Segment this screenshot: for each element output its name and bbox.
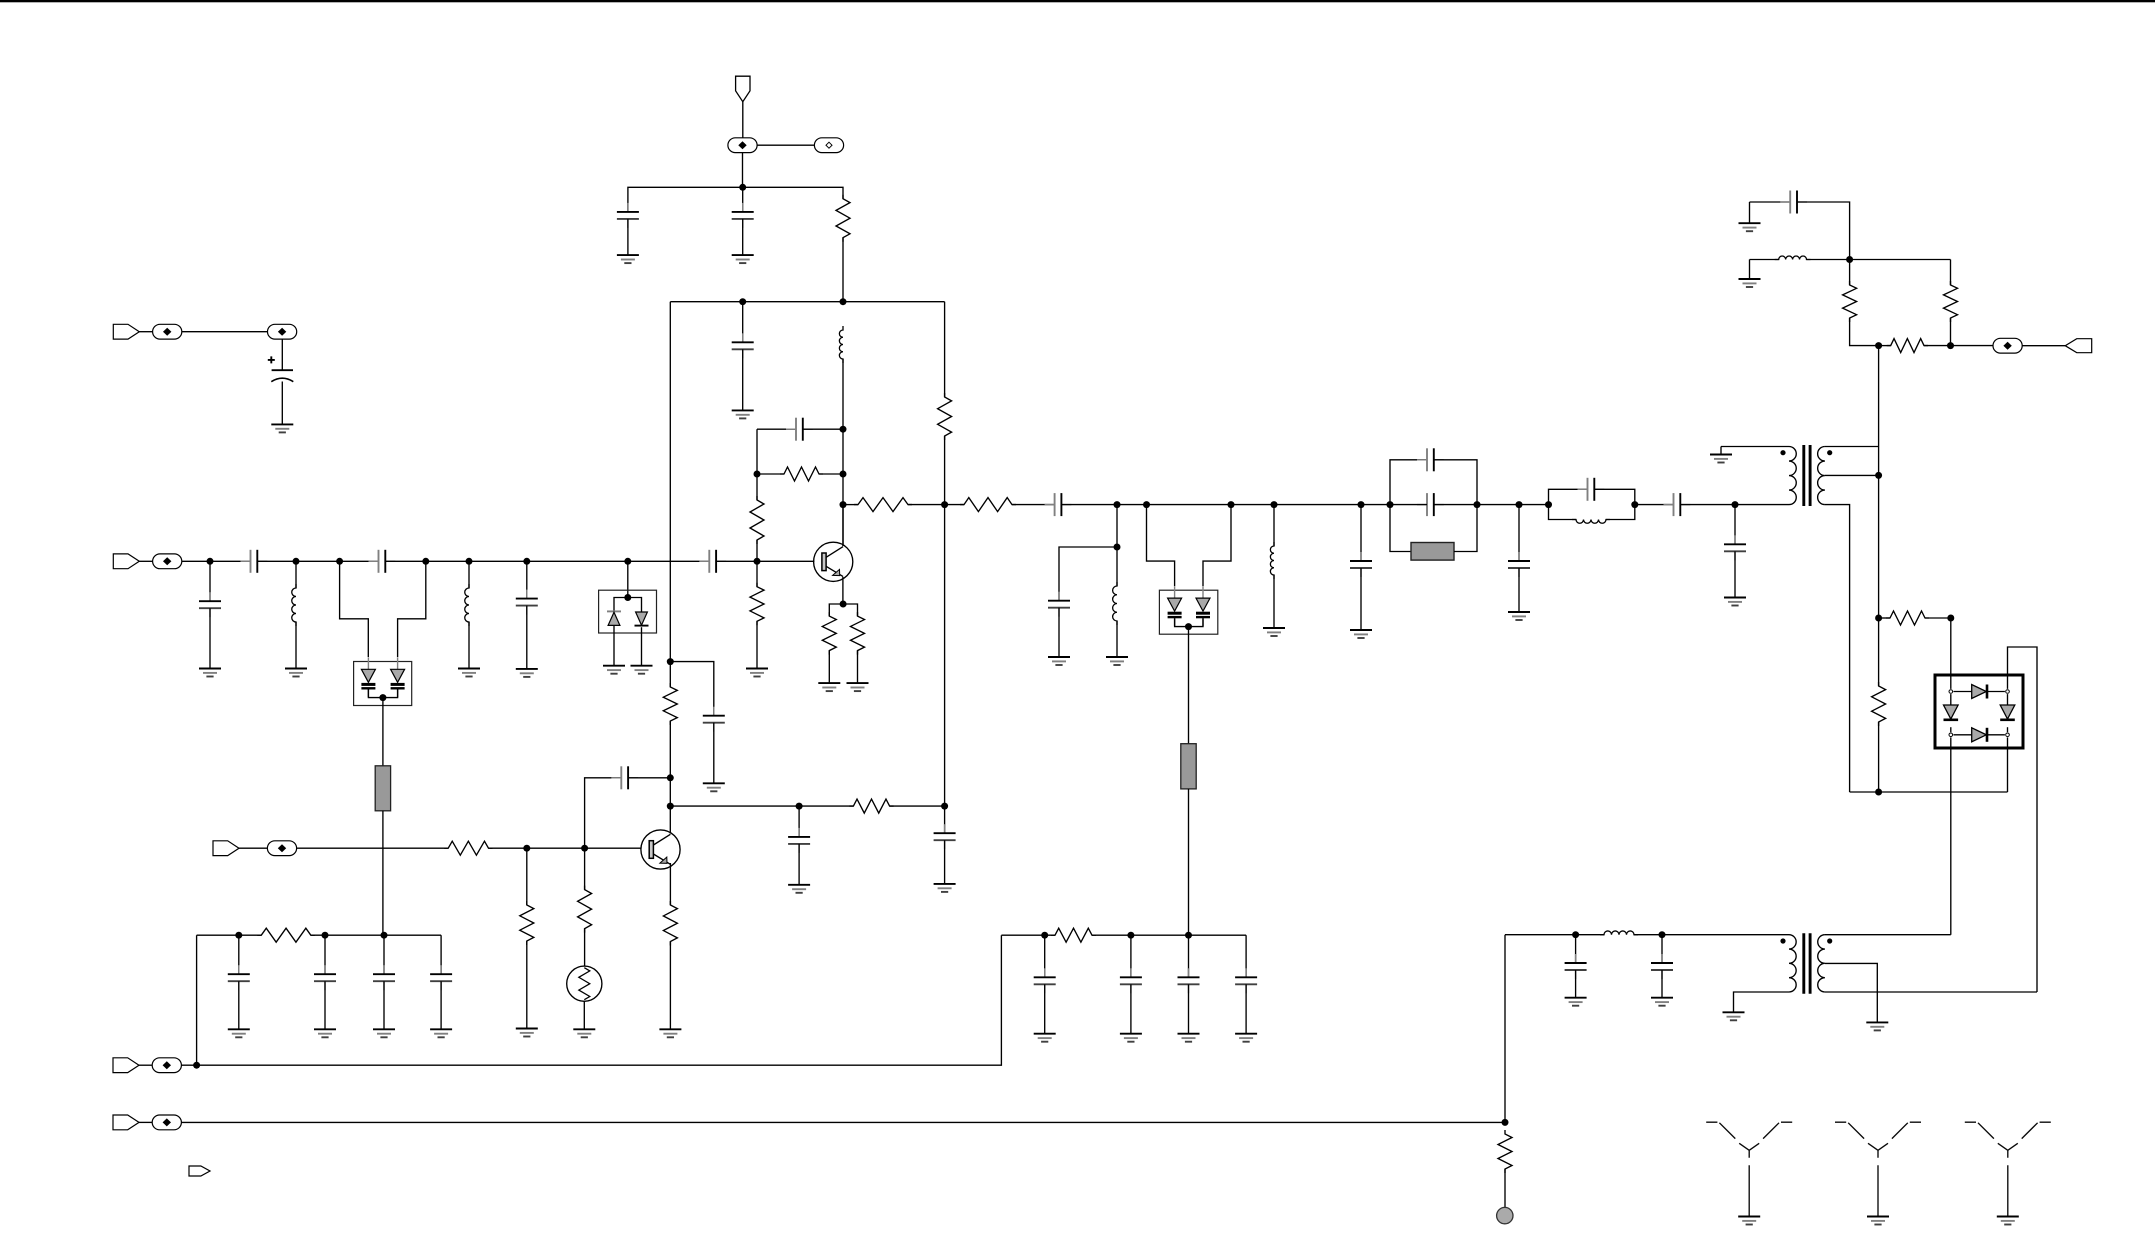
- wire: [1058, 608, 1060, 657]
- wire: [383, 981, 385, 1029]
- diode D6 (bridge right): [2000, 705, 2015, 720]
- junction L4/C12: [1114, 544, 1121, 551]
- wire T1 primary top lead: [1721, 446, 1789, 448]
- varactor module box U3: [1159, 590, 1217, 634]
- wire R8 to R9: [908, 504, 964, 506]
- resistor R4: [750, 496, 764, 544]
- junction LC block right: [1631, 501, 1638, 508]
- wire LPF feed riser: [1504, 935, 1506, 1123]
- junction base node: [754, 558, 761, 565]
- wire: [1116, 621, 1118, 657]
- ground C25: [788, 885, 810, 893]
- wire L7 node to R11 top: [1807, 259, 1951, 261]
- varactor VD1: [361, 657, 375, 697]
- ground C23: [1651, 998, 1673, 1006]
- wire emitter branches: [829, 604, 857, 616]
- wire: [526, 606, 528, 669]
- wire LC top-right: [1594, 489, 1635, 504]
- capacitor C12: [1048, 592, 1070, 617]
- wire C16 left: [1390, 504, 1427, 506]
- ground C6: [199, 669, 221, 677]
- wire Q1C to R8: [843, 504, 858, 506]
- capacitor C24 (feedback): [611, 766, 638, 789]
- capacitor C34: [1235, 968, 1257, 993]
- wire to C22: [1575, 935, 1577, 963]
- wire to C13: [670, 662, 714, 716]
- wire J7 to R16: [297, 847, 449, 849]
- capacitor C10 (feedback): [786, 418, 813, 441]
- bridge pin 1: [1949, 690, 1953, 694]
- diode D4 (bridge bottom): [1972, 728, 1987, 742]
- wire: [1360, 568, 1362, 630]
- varactor VD2: [391, 657, 405, 697]
- wire: [756, 540, 758, 561]
- resistor R2: [938, 393, 952, 440]
- capacitor C33: [1178, 968, 1200, 993]
- wire J5 to C5: [182, 560, 251, 562]
- wire R11 bottom: [1950, 318, 1952, 346]
- wire VD3-VD4 join: [1175, 618, 1203, 626]
- wire control net 2: [181, 1121, 1505, 1123]
- resistor R3 (feedback): [780, 467, 823, 481]
- connector J5: [153, 554, 182, 569]
- wire to C20: [1734, 505, 1736, 545]
- resistor R9: [960, 498, 1016, 512]
- top border bar: [0, 0, 2155, 2]
- ground T2 primary: [1723, 1012, 1745, 1020]
- inductor L8: [1600, 931, 1638, 935]
- junction C28 node: [322, 932, 329, 939]
- wire limiter branches: [614, 598, 642, 613]
- wire to C28: [324, 935, 326, 974]
- wire T1 sec tap lead: [1825, 474, 1879, 476]
- junction varactor left tap: [336, 558, 343, 565]
- junction R13 left: [1875, 615, 1882, 622]
- wire LC to C19: [1635, 504, 1674, 506]
- wire R22 to TP1: [1504, 1169, 1506, 1207]
- wire: [1749, 202, 1751, 223]
- wire Q1 collector up: [842, 505, 844, 546]
- wire: [138, 1064, 152, 1066]
- wire R1 to rail y=302: [842, 238, 844, 302]
- junction L7/R10: [1846, 256, 1853, 263]
- capacitor C7 (series): [369, 550, 396, 573]
- wire R10 bottom: [1850, 318, 1879, 346]
- wire to VD2: [398, 561, 426, 657]
- varactor module box U1: [354, 662, 412, 706]
- resistor RN3 (film): [1411, 543, 1454, 561]
- connector flag FL8: [189, 1166, 210, 1176]
- phase dot T1 primary: [1780, 450, 1785, 455]
- ground L3: [458, 669, 480, 677]
- wire pin4 to rail: [2007, 737, 2009, 792]
- wire RN1 to filter row: [382, 811, 384, 935]
- wire: [1044, 984, 1046, 1033]
- wire R14 to rail: [1878, 722, 1880, 792]
- wire RC block bottom-right: [1454, 505, 1477, 552]
- junction varactor join: [379, 694, 386, 701]
- wire C8 to Q1 base: [716, 560, 814, 562]
- wire: [526, 941, 528, 1029]
- wire: [756, 561, 758, 586]
- transformer T1 primary winding: [1789, 447, 1796, 505]
- wire: [440, 981, 442, 1029]
- wire LPF row B: [1634, 934, 1789, 936]
- wire C5 to C7: [257, 560, 378, 562]
- wire: [584, 848, 586, 889]
- ground C26: [934, 884, 956, 892]
- junction RN1/C29 node: [381, 932, 388, 939]
- junction C9 tap: [523, 558, 530, 565]
- phase dot T1 secondary: [1827, 450, 1832, 455]
- resistor R14: [1872, 682, 1886, 726]
- capacitor C29: [373, 965, 395, 990]
- wire left filter row B: [311, 934, 441, 936]
- wire L1 to Q1 collector: [842, 359, 844, 546]
- wire: [1575, 970, 1577, 998]
- connector J4: [268, 324, 297, 339]
- ground C34: [1235, 1034, 1257, 1042]
- capacitor C17: [1508, 552, 1530, 577]
- capacitor C15: [1417, 448, 1444, 471]
- ground T2 tap: [1866, 1022, 1888, 1030]
- varactor VD3: [1168, 586, 1182, 626]
- wire: [295, 622, 297, 669]
- connector flag FL4 (RF out): [2065, 339, 2092, 353]
- junction C22 node: [1572, 931, 1579, 938]
- wire control net 1: [181, 935, 1001, 1065]
- wire to C25: [798, 806, 800, 837]
- capacitor C21: [1780, 191, 1807, 214]
- wire: [209, 608, 211, 668]
- resistor R20: [257, 928, 315, 942]
- inductor L1: [839, 326, 843, 363]
- capacitor C8 (series): [699, 550, 726, 573]
- wire RC block bottom-left: [1390, 505, 1411, 552]
- capacitor C9: [516, 590, 538, 615]
- ground L4: [1106, 657, 1128, 665]
- connector flag FL3 (RF in): [113, 554, 139, 569]
- ground (antenna): [1997, 1217, 2019, 1225]
- ground L5: [1263, 628, 1285, 636]
- connector flag FL2 (supply): [113, 324, 139, 339]
- connector flag FL7: [113, 1115, 139, 1130]
- limiter diode box U2: [599, 590, 657, 633]
- wire: [1950, 260, 1952, 286]
- junction C6 tap: [207, 558, 214, 565]
- wire to C3: [742, 302, 744, 343]
- junction feedback-R node: [840, 471, 847, 478]
- ground L7: [1739, 279, 1761, 287]
- wire L7 left: [1750, 259, 1779, 261]
- capacitor C1: [617, 203, 639, 228]
- ground C33: [1178, 1034, 1200, 1042]
- bridge pin 4: [2006, 733, 2010, 737]
- junction feedback-C node: [840, 426, 847, 433]
- transistor Q1: [814, 542, 853, 581]
- wire to L4: [1116, 505, 1118, 586]
- transformer T2 primary winding: [1789, 935, 1796, 992]
- wire: [584, 929, 586, 967]
- junction RN2/C33 node: [1185, 932, 1192, 939]
- resistor R5: [750, 583, 764, 626]
- capacitor C18: [1578, 478, 1605, 501]
- wire bridge to T2 secondary: [2008, 647, 2038, 992]
- wire: [828, 651, 830, 684]
- junction R13 right: [1947, 615, 1954, 622]
- wire feedback left leg lower: [756, 474, 758, 500]
- wire varactor join to RN1: [382, 698, 384, 766]
- capacitor C26: [934, 824, 956, 849]
- phase dot T2 primary: [1780, 938, 1785, 943]
- wire to C26: [944, 806, 946, 833]
- ground (antenna): [1738, 1217, 1760, 1225]
- wire: [468, 622, 470, 669]
- connector J2: [814, 138, 843, 153]
- wire to C27: [238, 935, 240, 974]
- capacitor C20: [1724, 535, 1746, 560]
- ground C2: [732, 255, 754, 263]
- ground C31: [1034, 1034, 1056, 1042]
- junction RC block right: [1474, 501, 1481, 508]
- wire: [1879, 617, 1890, 619]
- connector flag FL5: [213, 841, 239, 856]
- wire RC block top-right: [1434, 460, 1477, 505]
- ground R17: [516, 1029, 538, 1037]
- wire T1 sec top lead: [1825, 446, 1879, 448]
- wire R13 to bridge: [1950, 618, 1952, 689]
- wire filter row drop: [196, 935, 198, 1065]
- wire main row A: [1061, 504, 1390, 506]
- wire J3-J4: [182, 331, 268, 333]
- junction node VANT: [739, 184, 746, 191]
- wire D2 to ground: [641, 627, 643, 666]
- antenna symbol ANT1: [1706, 1122, 1792, 1216]
- ground C32: [1120, 1034, 1142, 1042]
- capacitor C4 (electrolytic): [268, 356, 294, 381]
- resistor R8: [854, 498, 912, 512]
- junction rail302/L1: [840, 298, 847, 305]
- capacitor C3: [732, 333, 754, 358]
- junction C17 node: [1516, 501, 1523, 508]
- capacitor C19 (series): [1664, 493, 1691, 516]
- wire C10 to collector: [803, 428, 843, 430]
- wire to C17: [1518, 505, 1520, 561]
- ground T1 primary: [1710, 455, 1732, 463]
- ground C4: [271, 424, 293, 432]
- wire pin3 to D4: [1953, 734, 1972, 736]
- wire left filter row A: [197, 934, 262, 936]
- wire J6 to FL4: [2022, 345, 2065, 347]
- junction collector node: [840, 501, 847, 508]
- junction attenuator right: [1947, 342, 1954, 349]
- wire: [1130, 984, 1132, 1033]
- wire pin2 to D6: [2007, 694, 2009, 705]
- inductor L6: [1572, 520, 1610, 524]
- wire LC top-left: [1549, 489, 1588, 504]
- junction varactor right tap: [422, 558, 429, 565]
- capacitor C28: [314, 965, 336, 990]
- capacitor C27: [228, 965, 250, 990]
- transformer T2 secondary winding: [1818, 935, 1825, 992]
- wire to VD1: [340, 561, 369, 657]
- wire R9 to C11: [1012, 504, 1055, 506]
- wire D4 to pin4: [1987, 734, 2005, 736]
- wire R23 to Q2 collector: [669, 721, 671, 834]
- wire: [669, 942, 671, 1030]
- junction C23 node: [1659, 931, 1666, 938]
- wire RC block top-left: [1390, 460, 1427, 505]
- wire: [239, 847, 267, 849]
- wire to C31: [1044, 935, 1046, 977]
- resistor R23: [663, 683, 677, 725]
- wire: [798, 844, 800, 885]
- inductor L3: [465, 584, 469, 626]
- bridge pin 2: [2006, 690, 2010, 694]
- wire Q2 base to C24: [585, 778, 622, 848]
- junction Q2 base node: [581, 845, 588, 852]
- junction varactor2 left: [1143, 501, 1150, 508]
- resistor R17: [520, 901, 534, 945]
- wire to L2: [295, 561, 297, 588]
- capacitor C22: [1565, 954, 1587, 979]
- diode D2 (limiter): [635, 612, 649, 626]
- wire to C14: [1360, 505, 1362, 561]
- wire D6 to pin4: [2007, 727, 2009, 732]
- junction C25 node: [796, 803, 803, 810]
- wire: [1188, 984, 1190, 1033]
- wire R3 left: [757, 473, 784, 475]
- wire: [1734, 551, 1736, 597]
- junction T1 input: [1732, 501, 1739, 508]
- wire C21 left: [1750, 201, 1791, 203]
- diode D5 (bridge left): [1944, 705, 1959, 720]
- junction rail302/C3: [739, 298, 746, 305]
- wire T1 sec bottom to rail: [1825, 505, 1850, 792]
- ground D2: [631, 666, 653, 674]
- wire C16 right: [1434, 504, 1477, 506]
- ground C30: [430, 1029, 452, 1037]
- wire to L5: [1273, 505, 1275, 546]
- resistor R22: [1498, 1130, 1512, 1173]
- junction R23 top / C13 branch: [667, 658, 674, 665]
- wire to C32: [1130, 935, 1132, 977]
- wire pin1 to D3: [1953, 691, 1972, 693]
- ground C22: [1565, 998, 1587, 1006]
- wire: [139, 331, 152, 333]
- wire R3 right: [819, 473, 843, 475]
- wire to L3: [468, 561, 470, 588]
- junction Q2 collector node: [667, 803, 674, 810]
- ground C27: [228, 1029, 250, 1037]
- wire: [627, 219, 629, 255]
- junction C14 node: [1358, 501, 1365, 508]
- junction Q2 feedback top: [667, 774, 674, 781]
- ground (antenna): [1867, 1217, 1889, 1225]
- junction L3 tap: [466, 558, 473, 565]
- wire T1 tap down: [1878, 475, 1880, 686]
- wire: [139, 560, 152, 562]
- ground C12: [1048, 657, 1070, 665]
- resistor R10: [1843, 281, 1857, 322]
- wire R16 to Q2 base: [489, 847, 641, 849]
- ground C13: [703, 783, 725, 791]
- wire: [583, 1001, 585, 1029]
- wire D1 to ground: [613, 625, 615, 665]
- ground C3: [732, 410, 754, 418]
- junction limiter split: [624, 594, 631, 601]
- junction limiter tap: [624, 558, 631, 565]
- wire pin1 to D5: [1950, 694, 1952, 705]
- ground C20: [1724, 598, 1746, 606]
- wire: [756, 621, 758, 668]
- wire R15 to R2 leg: [890, 805, 945, 807]
- resistor R21: [1051, 928, 1096, 942]
- wire LPF row A: [1505, 934, 1604, 936]
- thermistor RT1: [567, 966, 602, 1001]
- ground C29: [373, 1029, 395, 1037]
- wire C24 to collector: [628, 777, 670, 779]
- wire: [526, 848, 528, 905]
- wire: [742, 219, 744, 255]
- wire C19 to T1: [1680, 504, 1735, 506]
- wire D5 to pin3: [1950, 727, 1952, 732]
- junction RC block left: [1387, 501, 1394, 508]
- wire rail302 left leg down: [669, 302, 671, 687]
- junction R17 node: [523, 845, 530, 852]
- junction AGC right: [941, 803, 948, 810]
- junction feedback R3: [754, 471, 761, 478]
- capacitor C30: [430, 965, 452, 990]
- ground D1: [603, 666, 625, 674]
- resistor R6: [822, 612, 836, 655]
- wire Q2 emitter: [669, 863, 671, 905]
- wire to C23: [1661, 935, 1663, 963]
- connector J3: [153, 324, 182, 339]
- wire C7 to C8: [385, 560, 709, 562]
- wire: [1273, 575, 1275, 628]
- wire T1 primary bottom lead: [1735, 504, 1789, 506]
- wire: [1879, 345, 1891, 347]
- wire T2 sec top lead: [1825, 934, 1951, 936]
- resistor R19: [663, 901, 677, 946]
- wire top rail y=187: [628, 187, 843, 212]
- wire: [1924, 345, 1951, 347]
- ground C28: [314, 1029, 336, 1037]
- diode D3 (bridge top): [1972, 685, 1987, 699]
- connector flag FL6: [113, 1058, 139, 1073]
- ground R5: [746, 669, 768, 677]
- varactor VD4: [1196, 586, 1210, 626]
- wire J4 to C4: [281, 339, 283, 370]
- wire: [1749, 260, 1751, 280]
- wire to limiter: [627, 561, 629, 597]
- junction C31 node: [1041, 932, 1048, 939]
- wire to VD3: [1147, 505, 1175, 586]
- wire to C30: [440, 935, 442, 974]
- wire: [138, 1121, 152, 1123]
- wire jog to C12: [1059, 547, 1117, 601]
- wire to C33: [1188, 935, 1190, 977]
- wire: [857, 651, 859, 684]
- wire VD1-VD2 join: [368, 690, 397, 698]
- connector J1: [728, 138, 757, 153]
- resistor RN2 (network): [1181, 744, 1196, 789]
- resistor R13: [1886, 611, 1929, 625]
- diode D1 (limiter): [607, 611, 621, 625]
- junction L5 node: [1271, 501, 1278, 508]
- resistor R15: [849, 799, 893, 813]
